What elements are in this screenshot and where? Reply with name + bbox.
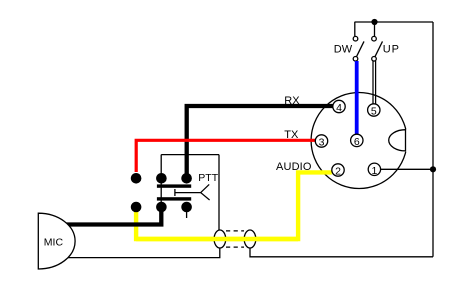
shield wire: right grommet to right bus: [250, 247, 433, 256]
pin 2: [332, 164, 344, 178]
svg-text:1: 1: [371, 165, 377, 177]
junction dot at top bus: [371, 19, 377, 25]
wire right vertical bus: [432, 22, 434, 257]
PTT top contact bar: [157, 184, 191, 187]
svg-text:RX: RX: [284, 95, 300, 107]
svg-text:6: 6: [354, 136, 360, 148]
PTT terminal dot bottom-middle (MIC): [156, 202, 167, 213]
PTT box outline: [161, 155, 219, 231]
wire thick black MIC to PTT bottom bar terminal: [66, 206, 161, 225]
svg-text:3: 3: [319, 137, 325, 149]
wire blue DW to pin 6: [355, 61, 359, 134]
switch UP: [372, 22, 383, 61]
switch DW: [353, 22, 364, 61]
connector circle (6-pin mic plug): [311, 93, 407, 189]
wire yellow through grommets (over ellipses): [136, 237, 298, 241]
pin 5: [368, 104, 380, 118]
pin 3: [315, 135, 327, 149]
pin 6: [351, 134, 363, 148]
PTT actuator bracket: [201, 184, 210, 200]
cable grommet right ellipse: [244, 230, 256, 248]
PTT terminal dot top-left (TX): [131, 173, 142, 184]
svg-text:5: 5: [371, 106, 377, 118]
svg-text:TX: TX: [284, 129, 299, 141]
svg-text:4: 4: [336, 102, 342, 114]
connector index notch: [389, 129, 409, 152]
PTT actuator link: [175, 192, 201, 194]
svg-text:UP: UP: [383, 43, 400, 55]
wire RX thick black: pin4 to PTT: [187, 106, 333, 177]
wire top bus from DW stub through junction to right edge: [355, 21, 434, 23]
MIC body: [38, 213, 75, 269]
wire white pair UP to pin 5: [373, 61, 376, 104]
svg-text:2: 2: [335, 166, 341, 178]
cable grommet left ellipse: [214, 230, 226, 248]
PTT terminal dot top-middle: [156, 173, 167, 184]
PTT bottom-right terminal stub: [186, 210, 188, 218]
shield wire: MIC to left grommet: [68, 247, 220, 257]
pin 4: [333, 100, 345, 114]
cable dashed top: [226, 230, 244, 232]
wire yellow AUDIO: pin2 to PTT bottom-left terminal: [136, 172, 332, 239]
PTT terminal dot top-right (RX): [181, 173, 192, 184]
wire pin1 to right bus: [381, 168, 433, 170]
svg-text:MIC: MIC: [44, 237, 64, 249]
wire TX red: pin3 to PTT top-left terminal: [136, 140, 315, 172]
svg-text:PTT: PTT: [198, 172, 218, 184]
PTT terminal dot bottom-right: [181, 202, 192, 213]
junction dot right bus / pin1 wire: [430, 166, 436, 172]
pin 1: [368, 163, 380, 177]
cable dashed bottom: [226, 246, 244, 248]
PTT actuator stem: [174, 189, 176, 196]
svg-text:DW: DW: [334, 43, 353, 55]
PTT terminal dot bottom-left (AUDIO): [131, 202, 142, 213]
PTT bottom contact bar: [157, 197, 191, 200]
